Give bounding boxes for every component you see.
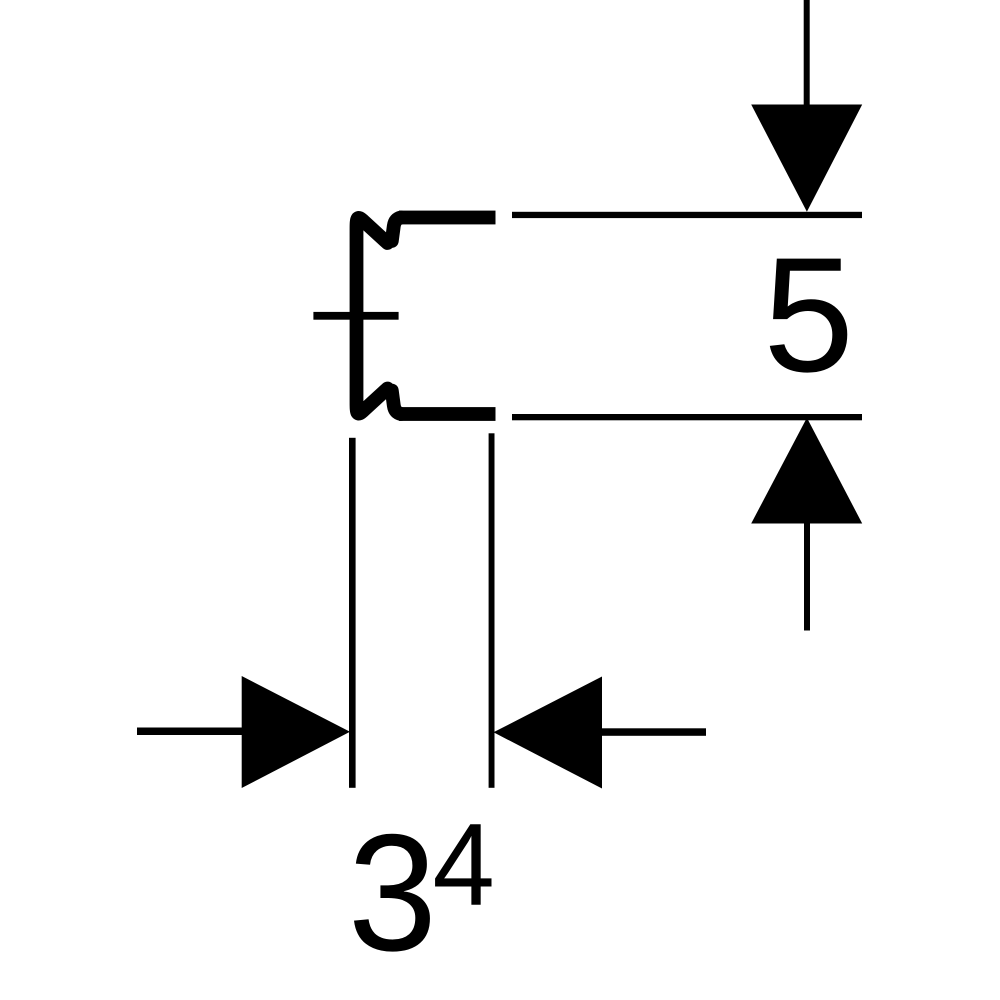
bottom dimension line <box>512 414 862 420</box>
left arrow head (pointing right) <box>242 676 350 788</box>
right arrow head (pointing left) <box>494 677 603 789</box>
bottom arrow head (pointing up) <box>751 418 862 524</box>
svg-text:4: 4 <box>433 799 495 930</box>
center tick mark <box>313 312 398 320</box>
profile bottom flange <box>399 407 496 421</box>
left arrow tail <box>137 728 242 736</box>
right arrow tail <box>602 728 706 736</box>
top dimension line <box>512 212 862 218</box>
profile top curled lip <box>392 218 401 242</box>
top arrow stem <box>804 0 810 108</box>
profile web (left vertical) with inward lips <box>357 218 388 414</box>
left extension line <box>349 438 356 788</box>
top arrow head (pointing down) <box>751 105 862 212</box>
svg-text:3: 3 <box>348 799 437 986</box>
profile bottom curled lip <box>392 391 401 415</box>
bottom arrow stem <box>804 523 810 631</box>
profile top flange <box>399 211 496 225</box>
svg-text:5: 5 <box>763 223 854 406</box>
right extension line <box>489 433 495 788</box>
